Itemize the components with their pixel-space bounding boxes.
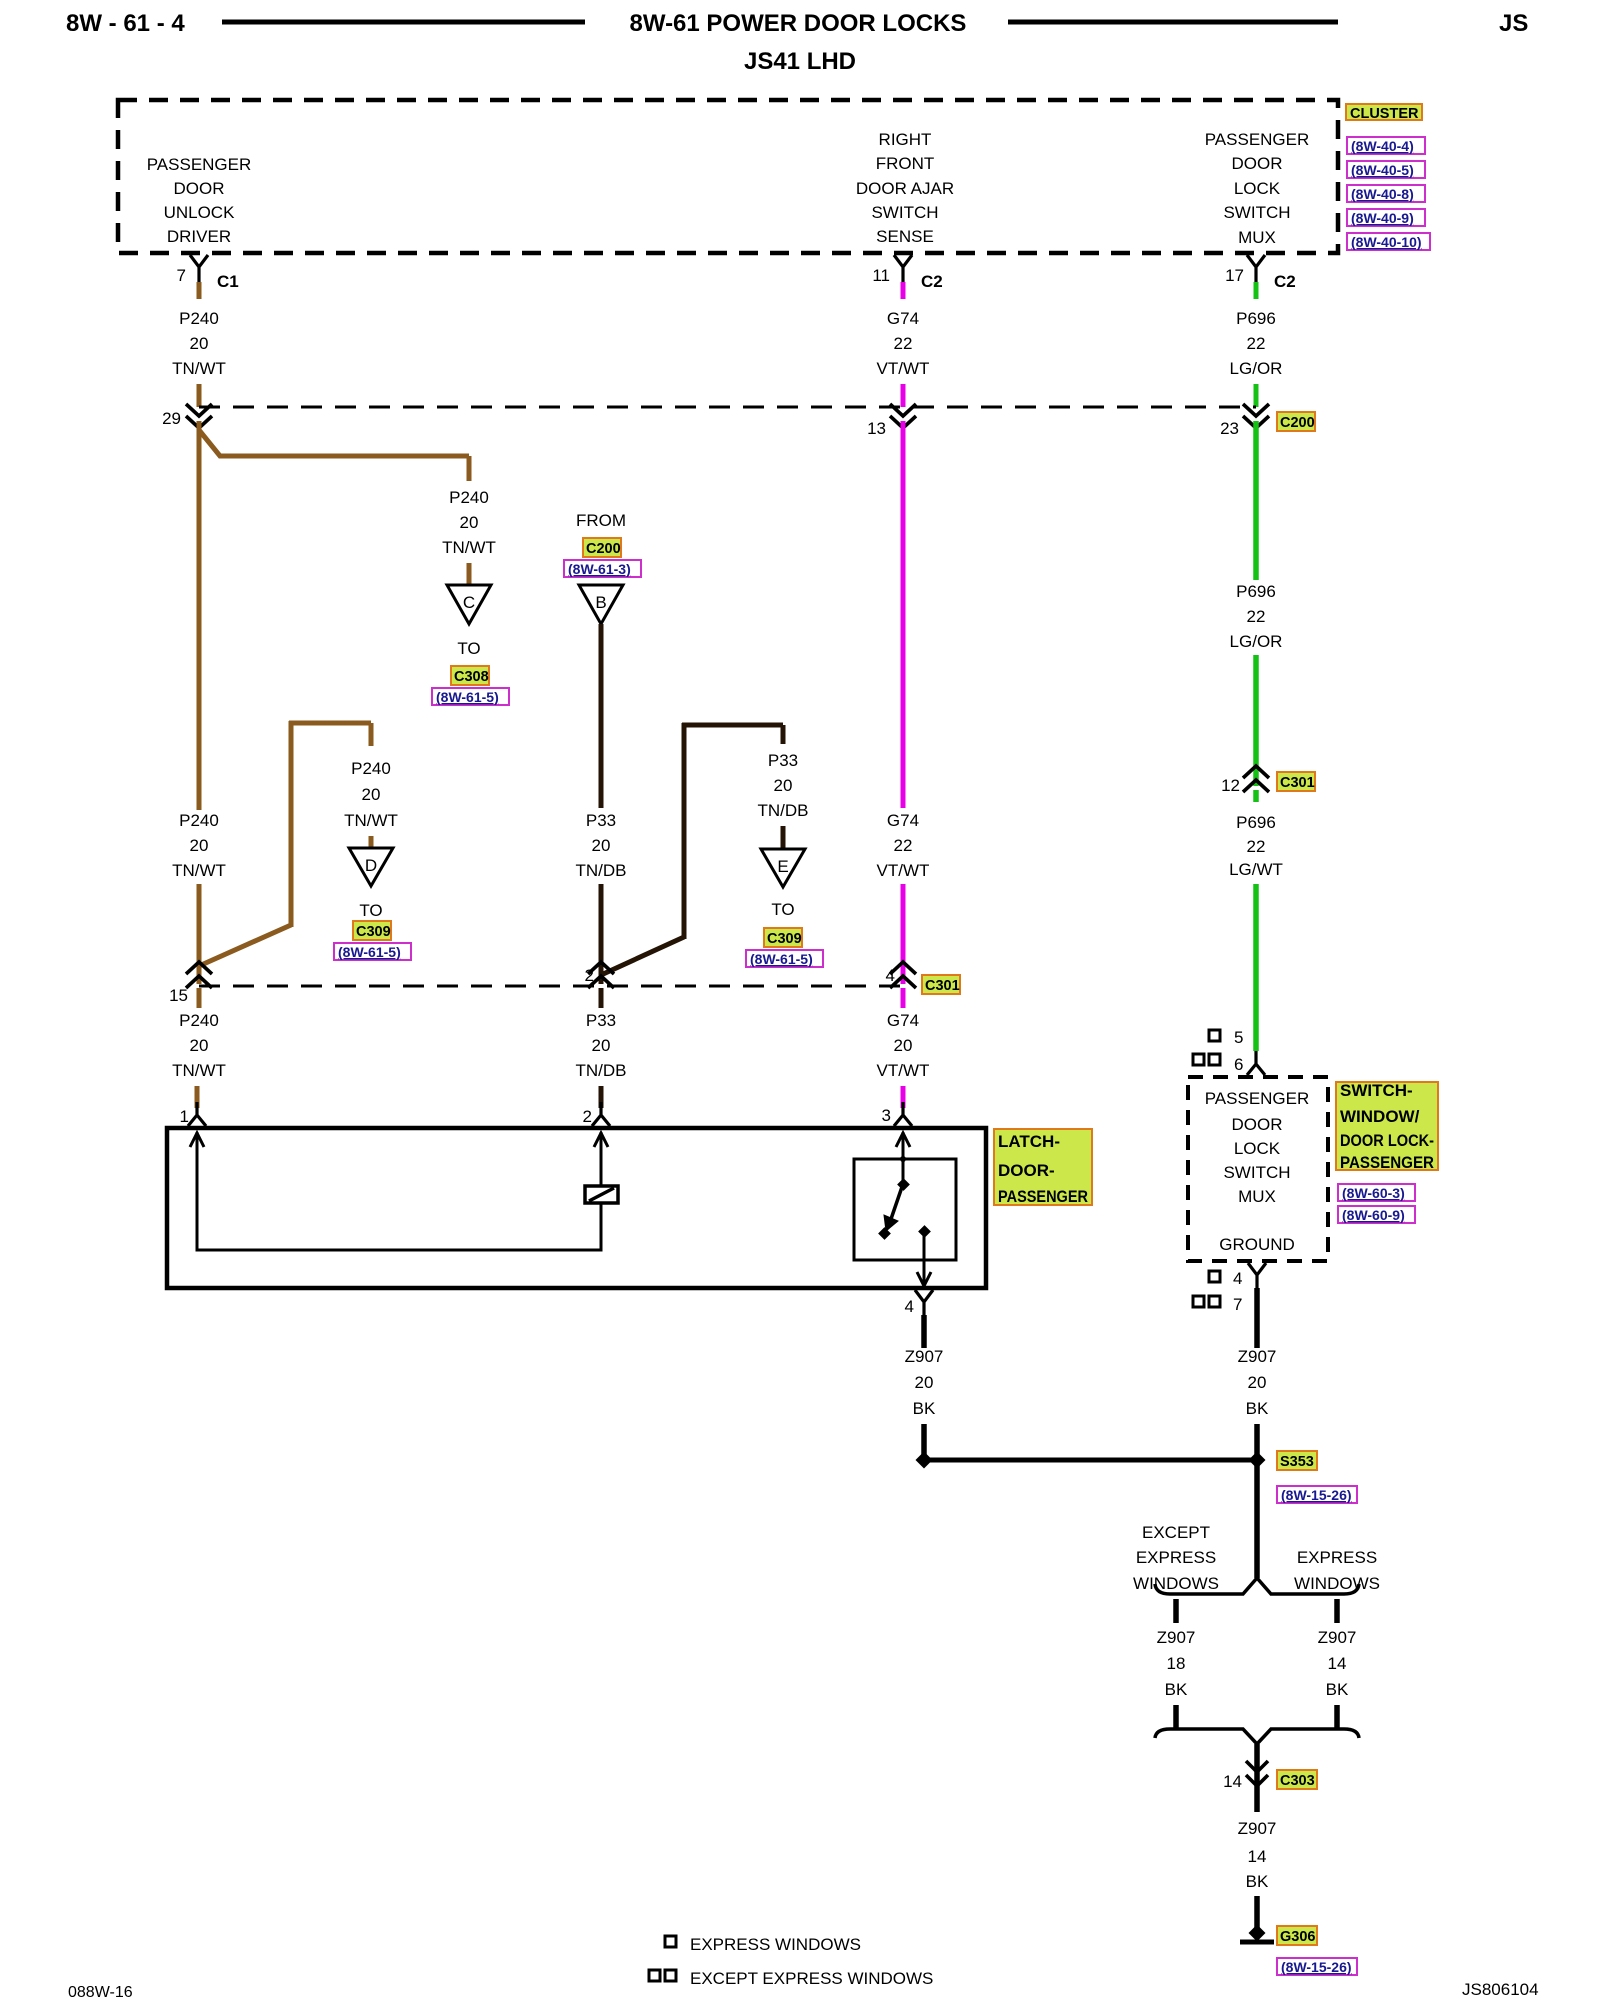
svg-text:5: 5 <box>1234 1028 1243 1047</box>
svg-text:B: B <box>595 593 606 612</box>
svg-text:22: 22 <box>894 836 913 855</box>
svg-text:GROUND: GROUND <box>1219 1235 1295 1254</box>
svg-text:P33: P33 <box>768 751 798 770</box>
svg-text:20: 20 <box>774 776 793 795</box>
svg-text:(8W-61-5): (8W-61-5) <box>338 944 401 960</box>
svg-text:(8W-15-26): (8W-15-26) <box>1281 1487 1352 1503</box>
svg-text:Z907: Z907 <box>1318 1628 1357 1647</box>
link 8W-40-8 <box>1347 185 1425 202</box>
svg-text:4: 4 <box>905 1297 914 1316</box>
svg-text:Z907: Z907 <box>1238 1347 1277 1366</box>
svg-text:3: 3 <box>882 1106 891 1125</box>
svg-text:22: 22 <box>1247 837 1266 856</box>
svg-text:20: 20 <box>190 836 209 855</box>
C303 label highlight <box>1277 1770 1317 1789</box>
svg-text:TO: TO <box>457 639 480 658</box>
svg-text:LG/OR: LG/OR <box>1230 359 1283 378</box>
wire P240 lower segment <box>197 884 202 984</box>
svg-text:TO: TO <box>771 900 794 919</box>
latch solenoid <box>585 1186 618 1203</box>
latch internal wire pin2 <box>600 1132 603 1186</box>
svg-text:22: 22 <box>1247 334 1266 353</box>
G306 label highlight <box>1277 1926 1317 1945</box>
wire P696 segment to switch pin 6 <box>1253 884 1259 1051</box>
svg-text:BK: BK <box>1165 1680 1188 1699</box>
wire P240 stub below C301 <box>197 988 202 1008</box>
wire stub express lower <box>1334 1705 1340 1728</box>
svg-text:P696: P696 <box>1236 309 1276 328</box>
svg-text:LOCK: LOCK <box>1234 179 1281 198</box>
svg-text:CLUSTER: CLUSTER <box>1350 106 1419 122</box>
svg-text:WINDOW/: WINDOW/ <box>1340 1107 1420 1126</box>
svg-text:6: 6 <box>1234 1055 1243 1074</box>
svg-text:20: 20 <box>915 1373 934 1392</box>
wire P696 stub below C301 <box>1253 790 1259 802</box>
svg-text:DOOR: DOOR <box>1232 154 1283 173</box>
svg-text:8W-61 POWER DOOR LOCKS: 8W-61 POWER DOOR LOCKS <box>630 10 967 37</box>
svg-text:29: 29 <box>162 409 181 428</box>
svg-text:14: 14 <box>1328 1654 1347 1673</box>
wire P696 segment to C301 <box>1253 655 1259 786</box>
C301 label highlight <box>922 975 960 994</box>
svg-text:LOCK: LOCK <box>1234 1139 1281 1158</box>
wire G74 stub below C301 <box>901 988 906 1008</box>
wire G74 stub to latch pin 3 <box>901 1086 906 1108</box>
SWITCH-WINDOW label highlight <box>1336 1082 1438 1170</box>
svg-text:G74: G74 <box>887 309 919 328</box>
svg-text:P33: P33 <box>586 811 616 830</box>
svg-text:20: 20 <box>190 1036 209 1055</box>
svg-text:MUX: MUX <box>1238 1187 1276 1206</box>
wire stub except-express lower <box>1173 1705 1179 1728</box>
option squares pin7 <box>1193 1296 1204 1307</box>
wire P33 lower segment <box>599 884 604 984</box>
svg-text:22: 22 <box>894 334 913 353</box>
svg-text:C308: C308 <box>454 669 489 685</box>
link 8W-40-4 <box>1347 137 1425 154</box>
wire P240 stub to latch pin 1 <box>195 1086 200 1108</box>
svg-text:20: 20 <box>592 836 611 855</box>
wire stub to triangle E <box>781 826 786 850</box>
svg-text:LG/OR: LG/OR <box>1230 632 1283 651</box>
svg-text:C309: C309 <box>767 931 802 947</box>
connector C1 pin 7 (cluster) <box>172 255 239 407</box>
svg-text:20: 20 <box>1248 1373 1267 1392</box>
svg-text:SWITCH: SWITCH <box>1223 203 1290 222</box>
merge brace lower <box>1155 1729 1359 1744</box>
wire Z907 to ground <box>1254 1896 1260 1930</box>
link 8W-61-5 (C309 D) <box>334 943 411 960</box>
svg-text:20: 20 <box>894 1036 913 1055</box>
wire stub express upper <box>1334 1599 1340 1623</box>
svg-text:17: 17 <box>1225 266 1244 285</box>
connector C303 chevrons pin 14 <box>1254 1744 1260 1812</box>
svg-text:BK: BK <box>913 1399 936 1418</box>
wire P696 long vertical <box>1221 421 1315 1051</box>
latch internal wire pin4 <box>923 1231 926 1286</box>
wire P240 stub below C1 <box>197 282 202 299</box>
svg-text:TN/WT: TN/WT <box>442 538 496 557</box>
svg-text:(8W-61-5): (8W-61-5) <box>750 951 813 967</box>
svg-text:(8W-15-26): (8W-15-26) <box>1281 1959 1352 1975</box>
svg-text:DRIVER: DRIVER <box>167 227 231 246</box>
svg-text:14: 14 <box>1223 1772 1242 1791</box>
switch pin 6 fork <box>1247 1051 1265 1075</box>
svg-text:VT/WT: VT/WT <box>877 1061 930 1080</box>
ground G306 <box>1249 1925 1266 1942</box>
wire stub down to P240 label (branch D) <box>369 723 374 746</box>
link 8W-40-5 <box>1347 161 1425 178</box>
svg-text:MUX: MUX <box>1238 228 1276 247</box>
wire branch E diagonal join <box>601 937 684 975</box>
svg-text:SWITCH: SWITCH <box>871 203 938 222</box>
module CLUSTER dashed box <box>118 100 1430 253</box>
component SWITCH-WINDOW/DOOR LOCK-PASSENGER box <box>1188 1028 1438 1460</box>
header rule right <box>1008 20 1338 25</box>
svg-text:088W-16: 088W-16 <box>68 1984 133 2000</box>
svg-text:4: 4 <box>1233 1269 1242 1288</box>
wire stub down to P240 label <box>467 456 472 481</box>
svg-text:20: 20 <box>460 513 479 532</box>
wire P696 stub to C200 line <box>1254 384 1259 407</box>
wire G74 long vertical <box>172 421 960 1108</box>
wire G74 stub below C2 <box>901 282 906 299</box>
svg-text:7: 7 <box>1233 1295 1242 1314</box>
svg-text:20: 20 <box>362 785 381 804</box>
svg-text:E: E <box>777 857 788 876</box>
svg-text:8W - 61 - 4: 8W - 61 - 4 <box>66 10 185 37</box>
wire P33 from triangle B <box>599 624 604 808</box>
wire P696 stub below C2 <box>1254 282 1259 299</box>
svg-text:BK: BK <box>1326 1680 1349 1699</box>
svg-text:Z907: Z907 <box>1157 1628 1196 1647</box>
header: page ref left <box>66 10 1528 75</box>
wire branch D horizontal <box>289 721 371 726</box>
svg-text:DOOR: DOOR <box>1232 1115 1283 1134</box>
link 8W-60-9 <box>1338 1206 1415 1223</box>
switch pin 4/7 fork <box>1248 1263 1266 1290</box>
svg-text:(8W-61-3): (8W-61-3) <box>568 561 631 577</box>
svg-text:TN/DB: TN/DB <box>576 861 627 880</box>
svg-text:G74: G74 <box>887 1011 919 1030</box>
connector C2 pin 11 (cluster) <box>872 255 942 407</box>
link 8W-60-3 <box>1338 1184 1415 1201</box>
dashed connector line C301 <box>199 985 905 988</box>
svg-text:Z907: Z907 <box>1238 1819 1277 1838</box>
CLUSTER label highlight <box>1346 104 1422 120</box>
svg-text:(8W-40-4): (8W-40-4) <box>1351 138 1414 154</box>
option square pin4 <box>1209 1271 1220 1282</box>
svg-text:EXPRESS: EXPRESS <box>1297 1548 1377 1567</box>
wire branch E vertical <box>682 723 687 939</box>
latch internal wire pin1 <box>197 1132 601 1250</box>
svg-text:LG/WT: LG/WT <box>1229 860 1283 879</box>
wire P240 main vertical (driver unlock) <box>169 421 509 1005</box>
svg-text:PASSENGER: PASSENGER <box>1205 1089 1310 1108</box>
link 8W-61-5 (C308) <box>432 688 509 705</box>
svg-text:VT/WT: VT/WT <box>877 861 930 880</box>
wire P33 stub to latch pin 2 <box>599 1086 604 1108</box>
option squares pin6 <box>1193 1054 1204 1065</box>
svg-text:C200: C200 <box>1280 415 1315 431</box>
wire branch D diagonal join <box>199 925 291 966</box>
svg-text:SENSE: SENSE <box>876 227 934 246</box>
svg-text:C: C <box>463 593 475 612</box>
svg-text:P696: P696 <box>1236 813 1276 832</box>
link 8W-61-3 <box>564 560 641 577</box>
C301 label highlight (green) <box>1277 772 1315 791</box>
link 8W-15-26 (S353) <box>1277 1486 1357 1503</box>
wire P240 stub to C200 line <box>197 384 202 407</box>
wire Z907 to S353 (right) <box>1254 1424 1260 1460</box>
component LATCH-DOOR-PASSENGER box <box>167 1102 1092 1460</box>
svg-text:JS41 LHD: JS41 LHD <box>744 48 856 75</box>
off-page triangle B <box>579 585 623 624</box>
latch switch blade <box>897 1178 910 1191</box>
svg-text:C2: C2 <box>921 272 943 291</box>
header rule left <box>222 20 585 25</box>
svg-text:TN/WT: TN/WT <box>172 359 226 378</box>
svg-text:20: 20 <box>190 334 209 353</box>
svg-text:FROM: FROM <box>576 511 626 530</box>
svg-text:EXPRESS: EXPRESS <box>1136 1548 1216 1567</box>
S353 label highlight <box>1277 1451 1317 1470</box>
svg-text:12: 12 <box>1221 776 1240 795</box>
svg-text:TN/WT: TN/WT <box>172 1061 226 1080</box>
svg-text:2: 2 <box>583 1107 592 1126</box>
svg-text:C301: C301 <box>1280 775 1315 791</box>
wire stub except-express upper <box>1173 1599 1179 1623</box>
wire Z907 switch stub <box>1254 1288 1260 1348</box>
svg-text:TO: TO <box>359 901 382 920</box>
svg-text:(8W-40-8): (8W-40-8) <box>1351 186 1414 202</box>
svg-text:20: 20 <box>592 1036 611 1055</box>
C200 label highlight (from) <box>583 538 621 557</box>
svg-text:EXCEPT EXPRESS WINDOWS: EXCEPT EXPRESS WINDOWS <box>690 1969 933 1988</box>
option square pin5 <box>1209 1030 1220 1041</box>
svg-text:(8W-60-3): (8W-60-3) <box>1342 1185 1405 1201</box>
svg-text:C2: C2 <box>1274 272 1296 291</box>
splice S353 <box>916 1451 1380 1975</box>
svg-text:11: 11 <box>872 266 890 285</box>
C308 label highlight <box>451 666 489 685</box>
svg-text:BK: BK <box>1246 1872 1269 1891</box>
off-page triangle D <box>349 848 393 886</box>
svg-text:P240: P240 <box>351 759 391 778</box>
svg-text:UNLOCK: UNLOCK <box>164 203 236 222</box>
wire G74 lower segment <box>901 884 906 984</box>
wire branch to C309 D: vertical <box>289 721 294 927</box>
svg-text:WINDOWS: WINDOWS <box>1294 1574 1380 1593</box>
svg-text:(8W-40-5): (8W-40-5) <box>1351 162 1414 178</box>
svg-text:JS: JS <box>1499 10 1528 37</box>
wire Z907 below S353 <box>1254 1460 1260 1578</box>
latch switch sub-box <box>854 1159 956 1260</box>
svg-text:PASSENGER: PASSENGER <box>147 155 252 174</box>
wire P33 stub below C301 <box>599 988 604 1008</box>
wire G74 stub to C200 line <box>901 384 906 407</box>
svg-text:P240: P240 <box>179 811 219 830</box>
svg-text:15: 15 <box>169 986 188 1005</box>
svg-text:PASSENGER: PASSENGER <box>1340 1153 1434 1172</box>
svg-text:RIGHT: RIGHT <box>879 130 932 149</box>
svg-text:(8W-61-5): (8W-61-5) <box>436 689 499 705</box>
connector C200 dashed line <box>162 404 1315 438</box>
svg-text:WINDOWS: WINDOWS <box>1133 1574 1219 1593</box>
switch box dashed <box>1188 1077 1328 1261</box>
svg-text:PASSENGER: PASSENGER <box>998 1187 1088 1206</box>
svg-text:DOOR: DOOR <box>174 179 225 198</box>
wire stub to triangle C <box>467 563 472 586</box>
svg-text:TN/DB: TN/DB <box>576 1061 627 1080</box>
latch internal wire pin3 <box>902 1132 905 1182</box>
svg-text:DOOR LOCK-: DOOR LOCK- <box>1340 1131 1434 1150</box>
off-page triangle C <box>447 585 491 624</box>
link 8W-15-26 (G306) <box>1277 1958 1357 1975</box>
svg-text:C309: C309 <box>356 924 391 940</box>
svg-text:TN/WT: TN/WT <box>172 861 226 880</box>
svg-text:22: 22 <box>1247 607 1266 626</box>
svg-text:DOOR AJAR: DOOR AJAR <box>856 179 954 198</box>
svg-text:TN/WT: TN/WT <box>344 811 398 830</box>
svg-text:SWITCH-: SWITCH- <box>1340 1081 1413 1100</box>
C309 label highlight (E) <box>764 928 802 947</box>
svg-text:7: 7 <box>177 266 186 285</box>
svg-text:(8W-40-9): (8W-40-9) <box>1351 210 1414 226</box>
svg-text:18: 18 <box>1167 1654 1186 1673</box>
wire branch E horizontal <box>682 723 783 728</box>
svg-text:23: 23 <box>1220 419 1239 438</box>
svg-text:D: D <box>365 856 377 875</box>
wire Z907 to S353 <box>921 1424 927 1460</box>
svg-text:P33: P33 <box>586 1011 616 1030</box>
node FROM C200 labels <box>564 511 823 988</box>
svg-text:14: 14 <box>1248 1847 1267 1866</box>
svg-text:Z907: Z907 <box>905 1347 944 1366</box>
svg-text:(8W-40-10): (8W-40-10) <box>1351 234 1422 250</box>
legend express windows <box>649 1935 933 1988</box>
svg-text:C1: C1 <box>217 272 239 291</box>
svg-text:C301: C301 <box>925 978 960 994</box>
svg-text:JS806104: JS806104 <box>1462 1980 1539 1999</box>
C200 label highlight <box>1277 412 1315 431</box>
split brace upper <box>1155 1578 1359 1594</box>
svg-text:(8W-60-9): (8W-60-9) <box>1342 1207 1405 1223</box>
C309 label highlight (D) <box>353 921 391 940</box>
svg-text:PASSENGER: PASSENGER <box>1205 130 1310 149</box>
svg-text:FRONT: FRONT <box>876 154 935 173</box>
link 8W-40-9 <box>1347 209 1425 226</box>
svg-text:G306: G306 <box>1280 1929 1315 1945</box>
link 8W-61-5 (C309 E) <box>746 950 823 967</box>
svg-text:13: 13 <box>867 419 886 438</box>
svg-text:TN/DB: TN/DB <box>758 801 809 820</box>
svg-text:P240: P240 <box>179 309 219 328</box>
footer sheet codes <box>68 1980 1539 2001</box>
svg-text:VT/WT: VT/WT <box>877 359 930 378</box>
LATCH-DOOR-PASSENGER label highlight <box>994 1129 1092 1205</box>
wire stub down to P33 label (branch E) <box>781 725 786 744</box>
legend except express windows <box>649 1970 660 1981</box>
svg-text:P240: P240 <box>449 488 489 507</box>
svg-text:C200: C200 <box>586 541 621 557</box>
svg-text:P696: P696 <box>1236 582 1276 601</box>
link 8W-40-10 <box>1347 233 1430 250</box>
svg-text:1: 1 <box>180 1107 189 1126</box>
svg-text:S353: S353 <box>1280 1454 1314 1470</box>
svg-text:SWITCH: SWITCH <box>1223 1163 1290 1182</box>
svg-text:G74: G74 <box>887 811 919 830</box>
svg-text:EXCEPT: EXCEPT <box>1142 1523 1210 1542</box>
svg-text:P240: P240 <box>179 1011 219 1030</box>
svg-text:BK: BK <box>1246 1399 1269 1418</box>
svg-text:C303: C303 <box>1280 1773 1315 1789</box>
wire Z907 latch stub <box>921 1315 927 1348</box>
wire branch to C308: diagonal <box>199 430 469 456</box>
off-page triangle E <box>761 849 805 887</box>
wire stub to triangle D <box>369 836 374 849</box>
svg-text:DOOR-: DOOR- <box>998 1161 1055 1180</box>
svg-text:LATCH-: LATCH- <box>998 1132 1060 1151</box>
connector C2 pin 17 (cluster) <box>1225 255 1296 407</box>
svg-text:EXPRESS WINDOWS: EXPRESS WINDOWS <box>690 1935 861 1954</box>
